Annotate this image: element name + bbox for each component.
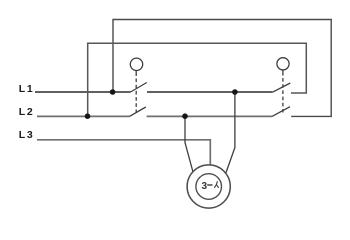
switch S2 mechanical link (dashed) [282,78,284,113]
node L1 bridge junction [110,89,116,95]
switch S1 actuator circle [130,58,142,70]
node motor feed junction on L1 [232,89,238,95]
switch S2 actuator stem [282,70,284,76]
node motor feed junction on L2 [182,113,188,119]
switch S2 upper contact blade [272,83,290,92]
motor M inner circle [196,174,222,200]
label motor rating tilde-dash [207,184,212,186]
svg-text:L2: L2 [19,106,35,118]
switch S1 mechanical link (dashed) [135,79,137,114]
switch S2 actuator circle [277,58,289,70]
svg-text:L3: L3 [19,129,35,141]
switch S2 lower contact blade [272,107,290,117]
wire crossover bridge inner: L2 node to S2 upper output [88,43,307,116]
wire crossover bridge outer: L1 node to S2 lower output [113,20,331,117]
svg-text:L1: L1 [19,83,35,95]
wire L3 run to motor [37,140,210,165]
switch S1 lower contact blade [130,107,146,116]
node L2 bridge junction [85,113,91,119]
wire motor feed right (from L1 node) [226,92,235,174]
wire L1 middle run [147,91,272,93]
wire motor feed left (from L2 node) [185,116,193,172]
label motor phase glyph (inverted-Y) [214,181,218,188]
motor M outer circle [187,165,230,208]
wire L1 feed [35,91,131,93]
svg-text:3: 3 [202,181,208,192]
switch S1 upper contact blade [131,83,147,93]
switch S1 actuator stem [135,71,137,77]
wire L2 feed [37,115,130,117]
wire L2 middle run [147,115,272,117]
